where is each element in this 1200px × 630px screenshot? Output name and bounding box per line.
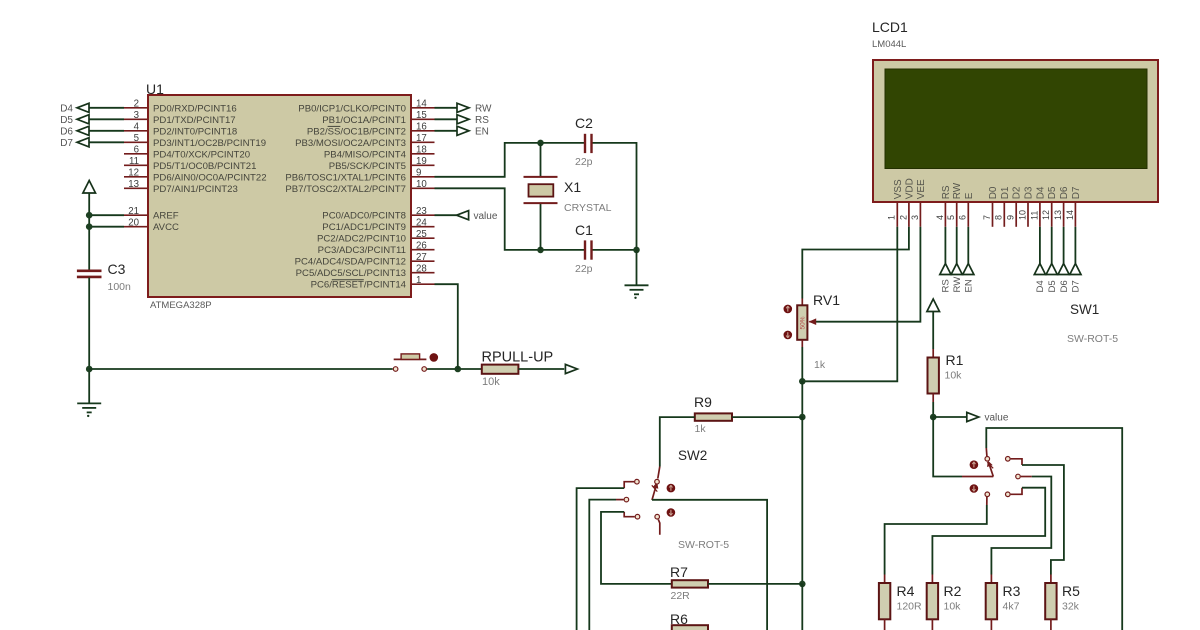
svg-text:VEE: VEE xyxy=(916,179,927,199)
svg-text:ATMEGA328P: ATMEGA328P xyxy=(150,300,212,311)
svg-text:22p: 22p xyxy=(575,263,593,275)
svg-text:17: 17 xyxy=(416,133,427,144)
svg-text:11: 11 xyxy=(1029,211,1039,220)
svg-text:PC3/ADC3/PCINT11: PC3/ADC3/PCINT11 xyxy=(318,245,406,256)
svg-text:D1: D1 xyxy=(1000,186,1011,199)
svg-text:RV1: RV1 xyxy=(813,292,840,308)
svg-text:RPULL-UP: RPULL-UP xyxy=(482,350,554,366)
svg-text:PB2/SS/OC1B/PCINT2: PB2/SS/OC1B/PCINT2 xyxy=(307,126,406,137)
svg-text:D0: D0 xyxy=(988,186,999,199)
svg-text:D6: D6 xyxy=(1059,280,1070,292)
svg-text:13: 13 xyxy=(128,179,139,190)
svg-text:6: 6 xyxy=(134,145,139,156)
svg-text:PD6/AIN0/OC0A/PCINT22: PD6/AIN0/OC0A/PCINT22 xyxy=(153,172,267,183)
svg-text:10k: 10k xyxy=(945,370,963,382)
svg-text:PC2/ADC2/PCINT10: PC2/ADC2/PCINT10 xyxy=(317,234,406,245)
svg-text:PB7/TOSC2/XTAL2/PCINT7: PB7/TOSC2/XTAL2/PCINT7 xyxy=(285,184,406,195)
svg-text:PC5/ADC5/SCL/PCINT13: PC5/ADC5/SCL/PCINT13 xyxy=(296,268,406,279)
svg-text:U1: U1 xyxy=(146,81,164,97)
svg-text:PB5/SCK/PCINT5: PB5/SCK/PCINT5 xyxy=(329,161,406,172)
svg-text:PD2/INT0/PCINT18: PD2/INT0/PCINT18 xyxy=(153,126,237,137)
svg-text:1: 1 xyxy=(887,215,897,220)
svg-text:2: 2 xyxy=(898,215,908,220)
svg-text:D5: D5 xyxy=(1047,186,1058,199)
svg-text:value: value xyxy=(474,211,498,222)
svg-text:D7: D7 xyxy=(1071,280,1082,292)
svg-text:RW: RW xyxy=(475,103,492,114)
svg-text:4: 4 xyxy=(935,215,945,220)
svg-text:100n: 100n xyxy=(108,281,132,293)
svg-text:20: 20 xyxy=(128,218,139,229)
svg-text:23: 23 xyxy=(416,206,427,217)
svg-text:R4: R4 xyxy=(897,583,915,599)
svg-text:PB6/TOSC1/XTAL1/PCINT6: PB6/TOSC1/XTAL1/PCINT6 xyxy=(285,172,406,183)
svg-text:SW-ROT-5: SW-ROT-5 xyxy=(678,539,729,551)
svg-text:28: 28 xyxy=(416,264,427,275)
svg-text:AVCC: AVCC xyxy=(153,222,179,233)
svg-text:LM044L: LM044L xyxy=(872,39,906,50)
svg-text:PD3/INT1/OC2B/PCINT19: PD3/INT1/OC2B/PCINT19 xyxy=(153,138,266,149)
svg-text:PD5/T1/OC0B/PCINT21: PD5/T1/OC0B/PCINT21 xyxy=(153,161,256,172)
svg-text:D6: D6 xyxy=(60,126,73,137)
svg-text:10: 10 xyxy=(416,179,427,190)
svg-text:1k: 1k xyxy=(695,423,707,435)
svg-text:3: 3 xyxy=(910,215,920,220)
svg-text:C1: C1 xyxy=(575,222,593,238)
svg-text:120R: 120R xyxy=(897,601,923,613)
svg-text:SW1: SW1 xyxy=(1070,302,1099,317)
svg-text:4k7: 4k7 xyxy=(1003,601,1020,613)
svg-text:PC1/ADC1/PCINT9: PC1/ADC1/PCINT9 xyxy=(322,222,406,233)
svg-text:R9: R9 xyxy=(694,394,712,410)
svg-text:RS: RS xyxy=(941,185,952,199)
svg-text:22p: 22p xyxy=(575,156,593,168)
svg-text:SW2: SW2 xyxy=(678,448,707,463)
svg-text:EN: EN xyxy=(475,126,489,137)
svg-text:21: 21 xyxy=(128,206,139,217)
svg-text:PC0/ADC0/PCINT8: PC0/ADC0/PCINT8 xyxy=(322,211,406,222)
svg-text:C3: C3 xyxy=(108,261,126,277)
svg-text:R5: R5 xyxy=(1062,583,1080,599)
svg-text:7: 7 xyxy=(982,215,992,220)
svg-text:10k: 10k xyxy=(482,376,500,388)
svg-text:D5: D5 xyxy=(60,115,73,126)
svg-text:D5: D5 xyxy=(1047,280,1058,292)
svg-text:D6: D6 xyxy=(1059,186,1070,199)
svg-text:12: 12 xyxy=(1041,210,1051,220)
svg-text:SW-ROT-5: SW-ROT-5 xyxy=(1067,333,1118,345)
svg-text:D7: D7 xyxy=(60,138,73,149)
svg-text:1: 1 xyxy=(416,275,421,286)
svg-text:5: 5 xyxy=(946,215,956,220)
svg-text:RS: RS xyxy=(941,279,952,292)
svg-text:PC6/RESET/PCINT14: PC6/RESET/PCINT14 xyxy=(311,280,407,291)
svg-text:LCD1: LCD1 xyxy=(872,19,908,35)
svg-text:value: value xyxy=(985,413,1009,424)
svg-text:32k: 32k xyxy=(1062,601,1080,613)
svg-text:D2: D2 xyxy=(1012,186,1023,199)
svg-text:D4: D4 xyxy=(1035,186,1046,199)
svg-text:C2: C2 xyxy=(575,115,593,131)
svg-text:R1: R1 xyxy=(946,352,964,368)
svg-text:RW: RW xyxy=(952,182,963,199)
svg-text:RW: RW xyxy=(952,276,963,293)
svg-text:D7: D7 xyxy=(1071,186,1082,199)
svg-text:PB3/MOSI/OC2A/PCINT3: PB3/MOSI/OC2A/PCINT3 xyxy=(295,138,406,149)
svg-text:E: E xyxy=(964,192,975,199)
svg-text:3: 3 xyxy=(134,110,139,121)
svg-text:12: 12 xyxy=(128,168,139,179)
svg-text:22R: 22R xyxy=(671,590,691,602)
svg-text:10k: 10k xyxy=(944,601,962,613)
svg-text:RS: RS xyxy=(475,115,489,126)
svg-text:13: 13 xyxy=(1053,210,1063,220)
svg-text:5: 5 xyxy=(134,133,139,144)
svg-text:PB1/OC1A/PCINT1: PB1/OC1A/PCINT1 xyxy=(322,115,406,126)
svg-text:PB4/MISO/PCINT4: PB4/MISO/PCINT4 xyxy=(324,149,407,160)
svg-text:PD7/AIN1/PCINT23: PD7/AIN1/PCINT23 xyxy=(153,184,238,195)
svg-text:27: 27 xyxy=(416,252,427,263)
svg-text:D3: D3 xyxy=(1024,186,1035,199)
svg-text:AREF: AREF xyxy=(153,211,179,222)
svg-text:PB0/ICP1/CLKO/PCINT0: PB0/ICP1/CLKO/PCINT0 xyxy=(298,103,406,114)
svg-text:25: 25 xyxy=(416,229,427,240)
svg-text:2: 2 xyxy=(134,99,139,110)
svg-text:9: 9 xyxy=(416,168,421,179)
svg-text:EN: EN xyxy=(964,279,975,292)
svg-text:8: 8 xyxy=(994,215,1004,220)
svg-text:D4: D4 xyxy=(1035,280,1046,293)
svg-text:6: 6 xyxy=(958,215,968,220)
svg-text:R7: R7 xyxy=(670,564,688,580)
svg-text:19: 19 xyxy=(416,156,427,167)
svg-text:24: 24 xyxy=(416,218,427,229)
svg-text:14: 14 xyxy=(1065,210,1075,220)
svg-text:18: 18 xyxy=(416,145,427,156)
svg-text:R2: R2 xyxy=(944,583,962,599)
svg-text:VSS: VSS xyxy=(893,179,904,199)
svg-text:15: 15 xyxy=(416,110,427,121)
svg-text:26: 26 xyxy=(416,241,427,252)
svg-text:50%: 50% xyxy=(800,316,807,329)
svg-text:10: 10 xyxy=(1017,210,1027,220)
svg-text:4: 4 xyxy=(134,122,140,133)
svg-text:R3: R3 xyxy=(1003,583,1021,599)
svg-text:11: 11 xyxy=(129,156,139,167)
svg-text:PD1/TXD/PCINT17: PD1/TXD/PCINT17 xyxy=(153,115,236,126)
svg-text:PD0/RXD/PCINT16: PD0/RXD/PCINT16 xyxy=(153,103,237,114)
svg-text:VDD: VDD xyxy=(904,178,915,199)
svg-text:14: 14 xyxy=(416,99,427,110)
svg-text:CRYSTAL: CRYSTAL xyxy=(564,202,612,214)
svg-text:PC4/ADC4/SDA/PCINT12: PC4/ADC4/SDA/PCINT12 xyxy=(295,257,406,268)
svg-text:16: 16 xyxy=(416,122,427,133)
svg-text:D4: D4 xyxy=(60,103,73,114)
svg-text:PD4/T0/XCK/PCINT20: PD4/T0/XCK/PCINT20 xyxy=(153,149,250,160)
svg-text:1k: 1k xyxy=(814,359,826,371)
svg-text:X1: X1 xyxy=(564,179,581,195)
svg-text:9: 9 xyxy=(1006,215,1016,220)
